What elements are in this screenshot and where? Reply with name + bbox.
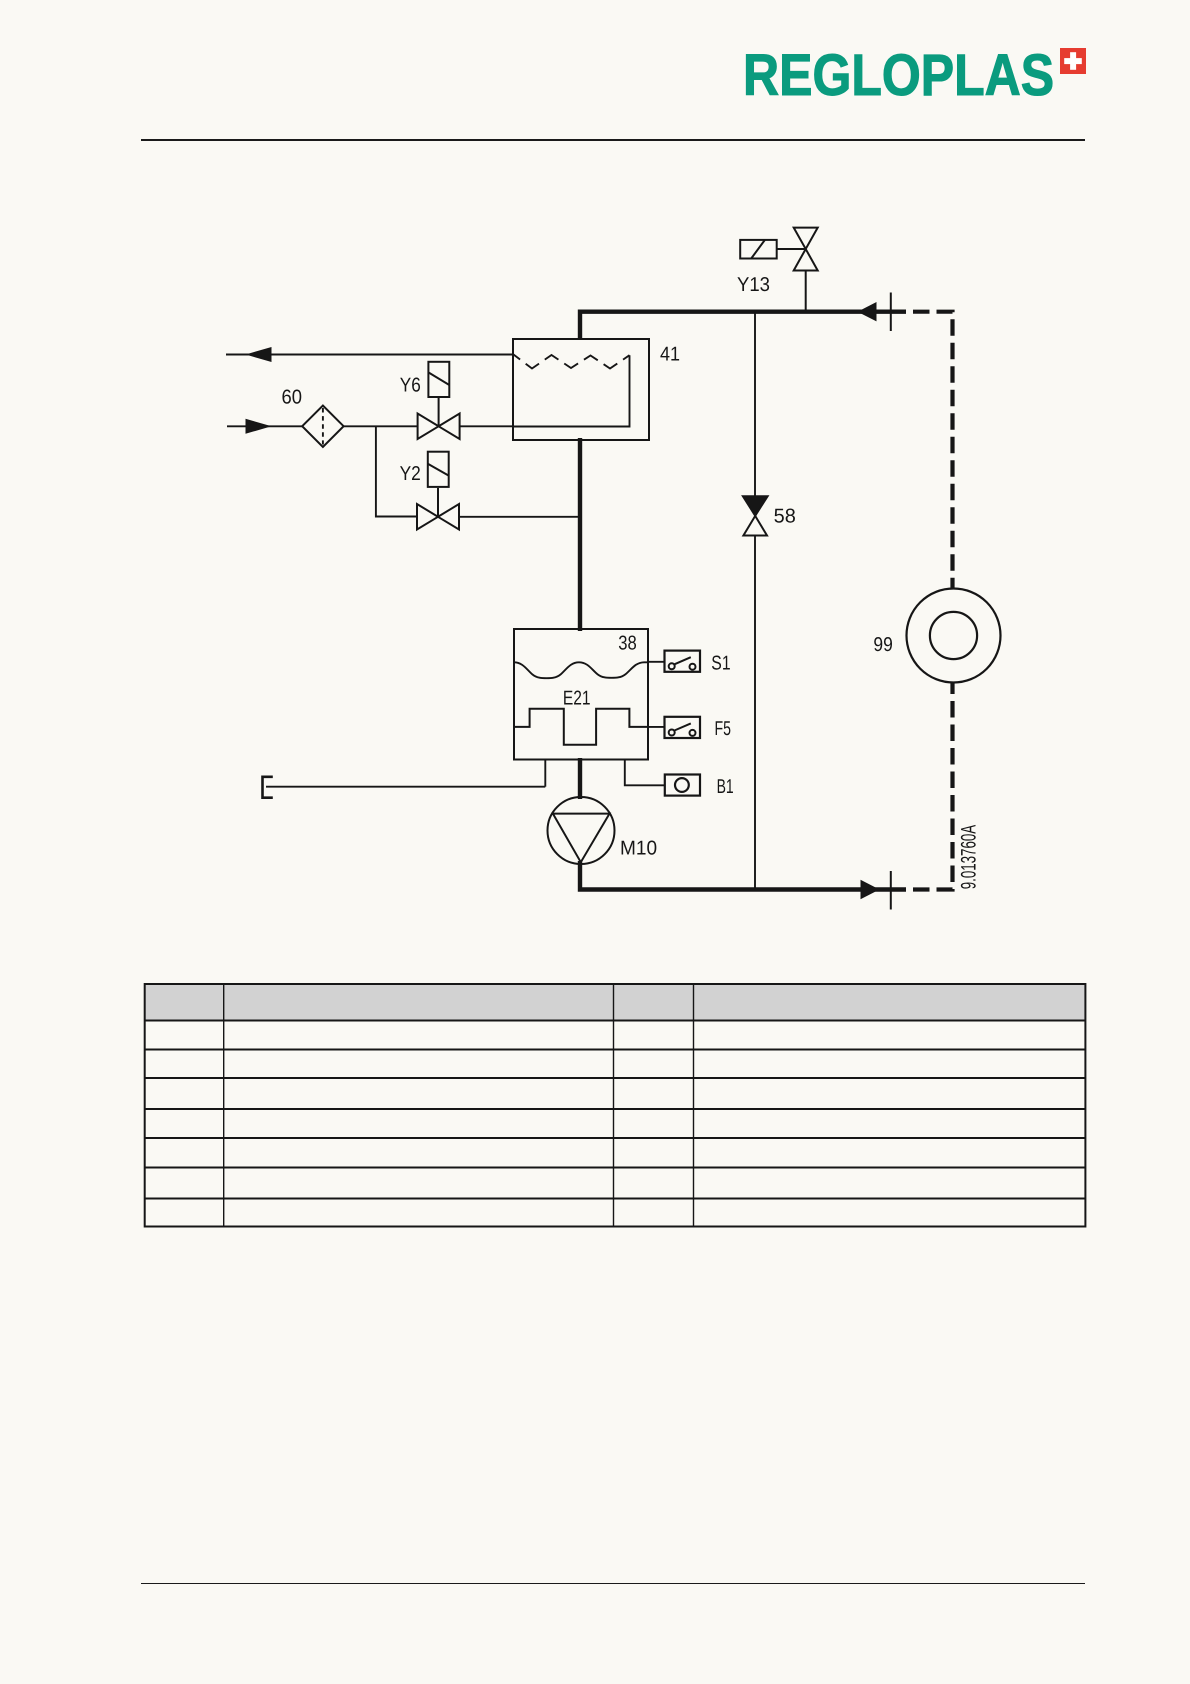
table outer border <box>145 984 1086 1227</box>
wire: thick line from heat exchanger bottom to tank top <box>578 438 582 631</box>
svg-text:M10: M10 <box>620 837 657 859</box>
svg-text:38: 38 <box>618 633 637 655</box>
pump M10 circle <box>548 797 615 864</box>
temperature sensor B1 circle <box>675 778 689 792</box>
wire: drain line to overflow <box>266 786 545 788</box>
arrow on lower return line (pointing right) <box>861 880 880 899</box>
temperature sensor B1 box <box>665 775 700 796</box>
arrow outlet (pointing left) <box>246 347 272 362</box>
valve Y2 body <box>417 504 459 530</box>
thermostat F5 box <box>665 717 701 738</box>
filter 60 dashed screen <box>322 408 324 445</box>
wire: thick supply line from heat exchanger top to upper-right corner <box>580 312 906 340</box>
heat exchanger 41 coil zigzag <box>514 355 630 369</box>
svg-text:60: 60 <box>282 386 303 408</box>
arrow on upper supply line (pointing left) <box>858 302 877 321</box>
wire: valve Y2 to riser <box>459 516 580 518</box>
valve Y6 stem <box>438 397 440 426</box>
table column lines <box>224 984 694 1227</box>
header rule <box>141 139 1085 141</box>
svg-text:Y6: Y6 <box>400 374 421 396</box>
valve Y13 stem to supply line <box>805 271 807 311</box>
wire: tank stub to sensor B1 <box>625 760 665 786</box>
solenoid Y2 diagonal <box>428 464 449 476</box>
solenoid Y2 box <box>428 452 449 487</box>
wire: tank to level switch S1 <box>648 661 665 663</box>
svg-text:9.013760A: 9.013760A <box>957 825 980 890</box>
solenoid Y6 diagonal <box>428 372 449 385</box>
svg-text:S1: S1 <box>711 653 730 675</box>
filter 60 diamond <box>302 406 343 447</box>
heat exchanger 41 coil return <box>514 355 630 426</box>
tank water level wave <box>514 662 648 678</box>
svg-text:E21: E21 <box>563 687 591 709</box>
wire: valve 58 down to return line <box>754 536 756 890</box>
wire: branch down to valve Y2 <box>376 426 417 516</box>
solenoid Y13 connector <box>777 248 806 250</box>
wire: valve Y6 to heat exchanger <box>460 425 513 427</box>
svg-text:B1: B1 <box>717 776 734 798</box>
svg-text:58: 58 <box>774 505 796 527</box>
thermostat F5 contacts <box>669 723 696 736</box>
level switch S1 box <box>665 651 701 672</box>
svg-text:41: 41 <box>660 344 680 366</box>
heater E21 element <box>514 709 648 745</box>
solenoid Y6 box <box>428 362 449 397</box>
valve Y6 body <box>418 414 460 440</box>
footer rule <box>141 1583 1085 1584</box>
wire: dashed line lower-right corner <box>906 682 953 890</box>
wire: dashed line upper-right corner <box>906 312 953 589</box>
svg-text:Y2: Y2 <box>400 463 421 485</box>
svg-text:F5: F5 <box>715 718 732 740</box>
overflow outlet bracket <box>263 777 273 798</box>
svg-text:Y13: Y13 <box>737 274 770 296</box>
wire: thick return line from pump bottom to lower-right <box>580 861 906 890</box>
consumer circuit 99 inner circle <box>930 612 977 659</box>
svg-text:99: 99 <box>873 634 892 656</box>
heat exchanger 41 box <box>513 339 649 440</box>
tank 38 box <box>514 629 648 760</box>
arrow inlet (pointing right) <box>246 419 272 434</box>
wire: filter to valve Y6 <box>344 425 418 427</box>
logo REGLOPLAS <box>743 47 1015 107</box>
consumer circuit 99 outer circle <box>907 589 1001 683</box>
wire: branch from supply line down through valve 58 <box>754 312 756 497</box>
wire: outlet line to left arrow <box>226 354 513 356</box>
solenoid Y13 diagonal <box>751 240 765 259</box>
valve 58 lower triangle <box>743 516 767 536</box>
level switch S1 contacts <box>669 657 696 670</box>
valve Y2 stem <box>437 488 439 517</box>
table header fill <box>145 984 1086 1021</box>
wire: tank to thermostat F5 <box>648 726 665 728</box>
solenoid Y13 box <box>740 240 777 259</box>
wire: tank drain stub <box>544 760 546 787</box>
tick mark on lower return line <box>890 871 892 910</box>
tick mark on upper supply line <box>890 293 892 332</box>
logo swiss cross <box>1060 48 1087 75</box>
pump M10 triangle <box>553 814 610 863</box>
table row lines <box>145 1021 1086 1199</box>
wire: inlet line to filter <box>227 425 302 427</box>
valve 58 upper triangle (filled) <box>743 496 768 516</box>
valve Y13 body <box>794 228 818 271</box>
wire: thick line from tank bottom to pump <box>578 758 582 799</box>
